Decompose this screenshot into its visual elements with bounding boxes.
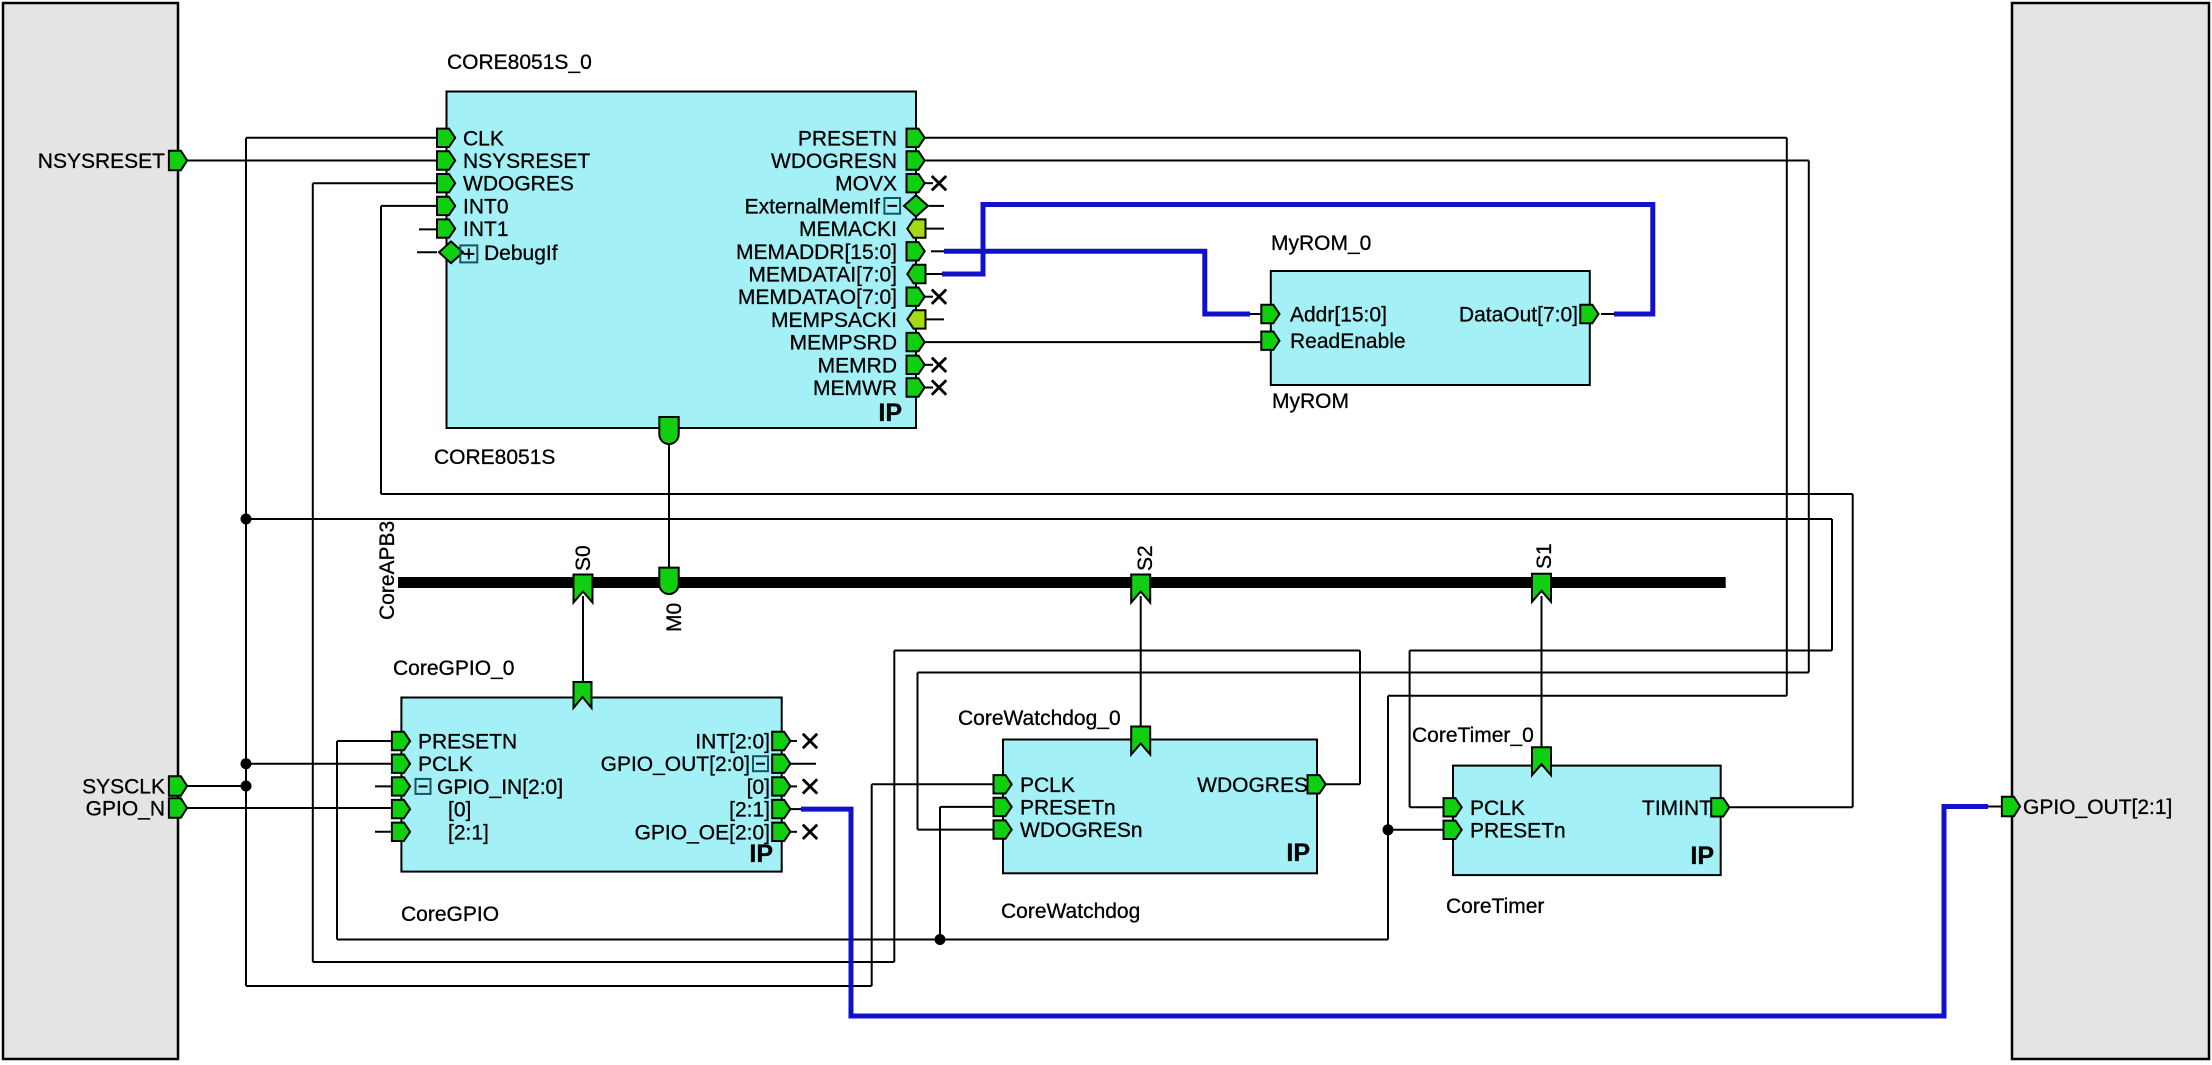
svg-text:IP: IP (1286, 839, 1310, 867)
svg-text:NSYSRESET: NSYSRESET (38, 150, 165, 173)
svg-text:MEMWR: MEMWR (813, 377, 897, 400)
svg-text:PRESETn: PRESETn (1020, 796, 1116, 819)
svg-text:Addr[15:0]: Addr[15:0] (1290, 304, 1387, 327)
svg-text:IP: IP (1690, 842, 1714, 870)
svg-text:MOVX: MOVX (835, 173, 897, 196)
svg-text:PCLK: PCLK (1020, 774, 1075, 797)
svg-text:INT0: INT0 (463, 195, 509, 218)
svg-text:WDOGRESN: WDOGRESN (771, 150, 897, 173)
svg-text:GPIO_OUT[2:0]: GPIO_OUT[2:0] (601, 753, 750, 776)
svg-text:S0: S0 (572, 545, 595, 571)
svg-text:ExternalMemIf: ExternalMemIf (745, 195, 881, 218)
svg-text:GPIO_N: GPIO_N (86, 798, 165, 821)
svg-text:CoreAPB3: CoreAPB3 (376, 521, 399, 620)
svg-text:WDOGRES: WDOGRES (1197, 774, 1308, 797)
svg-text:IP: IP (749, 840, 773, 868)
svg-text:PCLK: PCLK (1470, 797, 1525, 820)
svg-text:TIMINT: TIMINT (1642, 797, 1712, 820)
svg-text:CoreTimer_0: CoreTimer_0 (1412, 724, 1534, 747)
svg-text:DataOut[7:0]: DataOut[7:0] (1459, 304, 1578, 327)
svg-text:[0]: [0] (747, 776, 770, 799)
svg-text:MEMPSACKI: MEMPSACKI (771, 309, 897, 332)
svg-text:NSYSRESET: NSYSRESET (463, 150, 590, 173)
svg-text:[2:1]: [2:1] (448, 821, 489, 844)
svg-text:MEMDATAI[7:0]: MEMDATAI[7:0] (748, 264, 897, 287)
svg-text:S1: S1 (1533, 543, 1556, 569)
svg-text:MEMACKI: MEMACKI (799, 218, 897, 241)
svg-text:CoreGPIO: CoreGPIO (401, 903, 499, 926)
svg-text:MyROM: MyROM (1272, 390, 1349, 413)
svg-text:SYSCLK: SYSCLK (82, 776, 165, 799)
svg-text:CORE8051S: CORE8051S (434, 446, 555, 469)
svg-text:GPIO_OUT[2:1]: GPIO_OUT[2:1] (2023, 796, 2172, 819)
svg-text:MEMRD: MEMRD (818, 354, 897, 377)
svg-text:DebugIf: DebugIf (484, 242, 558, 265)
svg-text:PRESETN: PRESETN (418, 731, 517, 754)
svg-text:ReadEnable: ReadEnable (1290, 330, 1406, 353)
svg-text:CoreWatchdog_0: CoreWatchdog_0 (958, 707, 1121, 730)
svg-text:GPIO_IN[2:0]: GPIO_IN[2:0] (437, 776, 563, 799)
svg-text:INT1: INT1 (463, 218, 509, 241)
svg-text:M0: M0 (663, 603, 686, 632)
svg-text:WDOGRES: WDOGRES (463, 173, 574, 196)
svg-text:PRESETn: PRESETn (1470, 819, 1566, 842)
svg-text:MyROM_0: MyROM_0 (1271, 232, 1371, 255)
svg-text:S2: S2 (1134, 545, 1157, 571)
svg-text:CoreGPIO_0: CoreGPIO_0 (393, 657, 514, 680)
svg-text:MEMDATAO[7:0]: MEMDATAO[7:0] (738, 286, 897, 309)
svg-text:INT[2:0]: INT[2:0] (695, 731, 770, 754)
svg-text:CoreTimer: CoreTimer (1446, 895, 1544, 918)
svg-text:IP: IP (878, 399, 902, 427)
svg-text:[2:1]: [2:1] (729, 799, 770, 822)
svg-text:CoreWatchdog: CoreWatchdog (1001, 900, 1140, 923)
svg-text:MEMADDR[15:0]: MEMADDR[15:0] (736, 241, 897, 264)
svg-text:CORE8051S_0: CORE8051S_0 (447, 51, 592, 74)
svg-text:PCLK: PCLK (418, 753, 473, 776)
svg-text:WDOGRESn: WDOGRESn (1020, 819, 1143, 842)
svg-text:CLK: CLK (463, 127, 504, 150)
svg-text:MEMPSRD: MEMPSRD (790, 332, 897, 355)
svg-text:[0]: [0] (448, 799, 471, 822)
svg-text:PRESETN: PRESETN (798, 127, 897, 150)
